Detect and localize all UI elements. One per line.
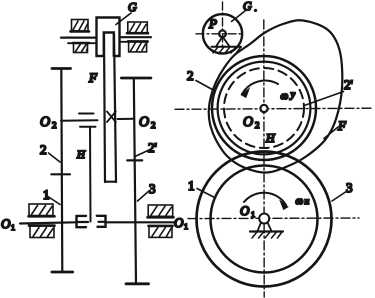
axis O2 line left segment [61,119,98,122]
svg-text:1: 1 [188,178,195,193]
svg-text:2': 2' [148,140,157,155]
svg-text:O: O [240,203,250,218]
rack line A (gear 2 / 1 line) [61,69,62,273]
pulley P circle [203,14,242,53]
shaft lines top-left [61,36,97,38]
bearing top-left (hatched blocks) [71,20,90,53]
leader 2' right [305,92,344,106]
svg-text:P: P [208,16,217,31]
svg-text:1: 1 [251,210,255,219]
svg-text:ω: ω [296,195,304,207]
axis O1 shaft line left [20,222,76,223]
svg-text:2: 2 [255,120,260,130]
svg-text:3: 3 [149,181,156,196]
ground bar of O1 [250,230,283,232]
bearing bottom-left (hatched blocks) [29,204,55,238]
T-bar top of B [121,77,150,80]
svg-text:O: O [40,115,50,130]
svg-text:2: 2 [40,142,47,157]
svg-text:2: 2 [52,120,57,130]
leader 2 [49,153,61,162]
bearing bottom-right (hatched blocks) [148,205,174,237]
svg-text:F: F [337,118,347,133]
support triangle of O1 [258,223,272,232]
svg-text:2: 2 [187,68,194,83]
horizontal centerline O1 [188,217,359,220]
svg-text:H: H [265,131,276,145]
svg-text:F: F [88,70,98,85]
T-bar bottom of B [126,282,149,285]
coupling left half (claw) [77,216,87,227]
svg-text:1: 1 [11,223,15,232]
arrowhead bottom [280,201,288,210]
leader 2 right [196,81,215,92]
wheel 2' inner circle [218,62,311,155]
leader G [116,13,131,25]
axis O2 line right segment [118,118,135,120]
svg-text:H: H [76,149,86,161]
svg-text:1: 1 [184,222,188,231]
X mark (rigid joint) on shaft F [107,112,116,123]
svg-text:2: 2 [151,120,156,130]
horizontal centerline O2 [175,108,372,109]
bracket G (fixed guide frame) [97,18,120,57]
tick on A [51,173,70,175]
clutch dashes near O2 [79,113,94,115]
svg-text:O: O [243,115,253,130]
arrowhead top [241,88,249,97]
vertical centerline (dash-dot) [263,20,265,297]
svg-text:1: 1 [43,187,50,202]
axis O1 shaft line right [107,221,176,223]
svg-text:2': 2' [344,77,353,92]
T-bar top of A [52,67,71,70]
P centerline vertical [222,2,224,47]
leader 3 [138,191,150,202]
shaft F (double-line slider rod) [104,33,105,182]
coupling right half (claw) [97,216,106,227]
rack line B (gear 2' / 3 line) [134,78,136,284]
leader G right [232,11,246,22]
svg-text:н: н [305,197,310,207]
svg-text:y: y [290,90,296,101]
pin joint O2 [260,105,267,112]
leader 2' [135,150,150,157]
shaft lines top-right [120,36,152,38]
svg-text:3: 3 [346,180,353,195]
rotation arrow top gear (ccw) [242,81,278,94]
dashed pitch circle of 2' [224,68,304,148]
svg-text:G: G [128,0,137,14]
pin joint O1 [259,214,269,224]
pin of P [219,30,226,37]
leader 1 [47,196,61,205]
gear 1 inner circle [211,166,318,273]
leader 1 right [197,189,216,199]
ground hatch of P [213,47,241,53]
ground hatch of O1 [252,232,282,238]
P centerline horizontal [196,33,244,35]
rotation arrow bottom gear (cw) [244,193,286,205]
support triangle of P [216,37,230,47]
wheel 2 outer circle [212,56,316,160]
ground bar of P [212,46,242,48]
svg-text:ω: ω [281,90,289,102]
svg-text:O: O [1,216,11,231]
leader 3 right [332,191,347,201]
svg-text:.: . [254,0,257,14]
gear 3 outer circle [197,152,332,287]
tick on B [127,159,142,161]
bearing top-right (hatched blocks) [127,22,148,52]
T-bar bottom of A [52,271,73,274]
svg-text:O: O [139,115,149,130]
svg-text:O: O [174,215,184,230]
carrier link H line [89,127,92,222]
leader F right [324,127,338,139]
flexible band F oval [209,20,343,172]
